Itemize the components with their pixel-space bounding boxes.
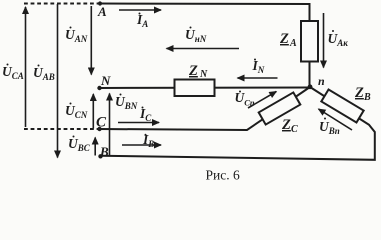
svg-text:N: N (199, 69, 208, 80)
svg-text:Z: Z (188, 63, 198, 79)
svg-text:IA: IA (136, 12, 148, 29)
svg-text:IN: IN (252, 58, 265, 75)
svg-text:UнN: UнN (185, 27, 207, 44)
svg-text:UAк: UAк (328, 31, 349, 48)
svg-text:B: B (99, 144, 109, 159)
svg-text:UBN: UBN (115, 94, 138, 111)
svg-text:Z: Z (279, 31, 289, 47)
svg-text:A: A (97, 4, 107, 19)
svg-text:C: C (96, 115, 107, 131)
svg-text:C: C (291, 124, 298, 135)
svg-text:IC: IC (139, 106, 152, 123)
svg-text:Z: Z (354, 85, 364, 101)
svg-text:UAB: UAB (33, 65, 55, 82)
svg-text:IB: IB (142, 132, 154, 149)
svg-text:UВn: UВn (319, 119, 340, 136)
svg-text:A: A (289, 38, 297, 49)
svg-text:UСn: UСn (235, 90, 255, 108)
svg-text:N: N (100, 73, 111, 88)
svg-text:n: n (318, 74, 325, 88)
svg-text:UCN: UCN (65, 103, 88, 120)
svg-text:B: B (363, 92, 371, 103)
svg-text:Z: Z (281, 117, 291, 133)
svg-text:Рис. 6: Рис. 6 (206, 168, 240, 183)
svg-text:UCA: UCA (2, 64, 24, 81)
svg-text:UAN: UAN (65, 27, 88, 44)
svg-text:UBC: UBC (68, 136, 91, 153)
